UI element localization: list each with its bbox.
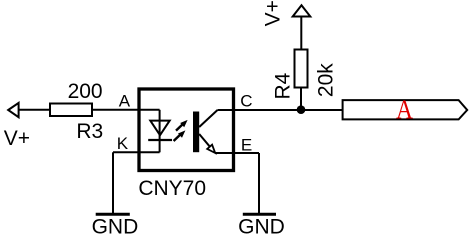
svg-text:R3: R3 bbox=[76, 120, 103, 143]
svg-text:200: 200 bbox=[68, 80, 103, 103]
LED emission arrow 1 shaft bbox=[176, 123, 184, 130]
V+ terminal arrow (left) bbox=[8, 103, 18, 117]
phototransistor emitter arrowhead bbox=[207, 145, 215, 153]
svg-text:E: E bbox=[241, 135, 252, 154]
LED D1 cathode bar bbox=[148, 139, 172, 141]
LED emission arrow 2 shaft bbox=[174, 134, 181, 141]
svg-text:20k: 20k bbox=[315, 63, 338, 97]
wire R4 to node bbox=[300, 88, 302, 111]
wire E down to ground bbox=[258, 153, 260, 214]
resistor R3 body bbox=[50, 104, 92, 117]
svg-text:GND: GND bbox=[238, 215, 285, 238]
LED D1 triangle bbox=[150, 121, 169, 136]
svg-text:C: C bbox=[240, 92, 252, 111]
LED emission arrow 2 head bbox=[178, 130, 185, 137]
wire node to output tag bbox=[301, 109, 342, 111]
ground symbol (left) bar bbox=[96, 213, 130, 216]
svg-text:K: K bbox=[117, 134, 129, 153]
wire V+ arrow to R3 bbox=[19, 109, 50, 111]
phototransistor emitter line bbox=[199, 134, 211, 148]
wire R3 to LED anode (pin A) bbox=[92, 109, 160, 111]
svg-text:V+: V+ bbox=[4, 127, 30, 150]
junction node dot bbox=[297, 105, 306, 114]
wire K down to ground bbox=[112, 152, 114, 214]
LED D1 anode stub bbox=[159, 110, 161, 141]
phototransistor base bar bbox=[193, 112, 199, 153]
optocoupler CNY70 box bbox=[139, 89, 234, 171]
svg-text:A: A bbox=[396, 95, 413, 125]
svg-text:CNY70: CNY70 bbox=[138, 177, 206, 200]
V+ terminal arrow (top) bbox=[293, 5, 311, 16]
resistor R4 body bbox=[295, 50, 308, 88]
wire pin C to node bbox=[218, 109, 302, 111]
phototransistor collector line bbox=[199, 110, 217, 127]
svg-text:V+: V+ bbox=[261, 0, 284, 26]
LED emission arrow 1 head bbox=[180, 120, 187, 127]
svg-text:GND: GND bbox=[92, 215, 139, 238]
ground symbol (right) bar bbox=[243, 213, 276, 216]
svg-text:R4: R4 bbox=[271, 72, 294, 99]
output tag pentagon bbox=[343, 100, 468, 119]
wire pin E out of box bbox=[215, 152, 259, 154]
wire V+ arrow to R4 bbox=[300, 17, 302, 51]
svg-text:A: A bbox=[119, 91, 131, 110]
LED D1 cathode stub bbox=[159, 140, 161, 152]
wire LED cathode to pin K and out bbox=[113, 151, 160, 153]
